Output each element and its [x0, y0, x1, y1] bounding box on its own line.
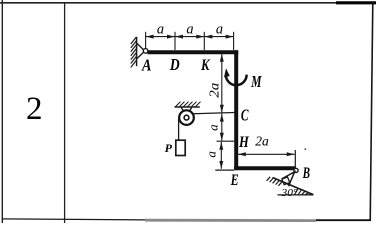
svg-text:B: B — [302, 165, 310, 182]
pin circle B — [294, 168, 298, 172]
roller square — [282, 177, 290, 185]
top dimension line — [146, 36, 234, 38]
pulley wheel — [179, 110, 194, 125]
speck — [304, 148, 306, 150]
bottom beam E-B — [234, 166, 295, 170]
ceiling hatching — [176, 102, 201, 107]
svg-text:a: a — [157, 21, 164, 37]
cord from pulley to C — [189, 113, 234, 114]
angle base line — [278, 194, 314, 196]
B dimension tick — [294, 150, 296, 170]
pin support bracket A — [137, 43, 144, 58]
incline hatching right — [295, 188, 312, 195]
svg-text:2: 2 — [26, 91, 43, 127]
svg-text:P: P — [165, 141, 173, 155]
2a horizontal dimension H-B — [238, 153, 295, 155]
cord down from pulley — [178, 118, 180, 141]
svg-text:D: D — [169, 55, 180, 74]
svg-text:H: H — [238, 134, 249, 151]
2a vertical dimension — [221, 54, 223, 113]
table column divider — [64, 2, 66, 223]
roller support triangle at B — [283, 172, 295, 186]
moment M arc — [226, 75, 247, 86]
svg-text:a: a — [216, 21, 223, 37]
pulley ceiling — [175, 106, 200, 108]
svg-text:E: E — [230, 172, 239, 189]
H tick — [217, 140, 235, 142]
moment arrowhead — [224, 68, 230, 77]
svg-text:2a: 2a — [255, 133, 269, 148]
svg-text:A: A — [141, 55, 151, 74]
vertical member K-C-H-E — [234, 50, 238, 170]
wall at A — [136, 37, 138, 66]
svg-text:C: C — [241, 106, 249, 125]
pulley hub — [184, 115, 189, 120]
beam A-D-K (horizontal member) — [148, 50, 239, 54]
svg-text:M: M — [251, 72, 263, 91]
svg-text:K: K — [200, 57, 210, 74]
svg-text:a: a — [186, 21, 193, 37]
a dimension H-E — [220, 142, 222, 169]
a dimension C-H — [221, 114, 223, 141]
svg-text:a: a — [203, 151, 218, 158]
weight block — [176, 140, 185, 155]
table bottom border — [2, 219, 145, 220]
incline hatching left — [267, 177, 282, 186]
E extension line — [215, 169, 234, 171]
dimension ticks — [146, 32, 234, 50]
table top border — [0, 2, 376, 4]
table right border — [370, 2, 373, 221]
dimension arrowheads top — [146, 35, 234, 39]
wall hatching — [131, 37, 137, 67]
pulley bracket — [181, 108, 191, 115]
svg-text:2a: 2a — [207, 83, 222, 98]
incline surface — [273, 178, 314, 195]
svg-text:30°: 30° — [280, 188, 297, 199]
table left border — [1, 0, 3, 223]
pin circle A — [143, 49, 148, 54]
svg-text:a: a — [205, 124, 220, 131]
